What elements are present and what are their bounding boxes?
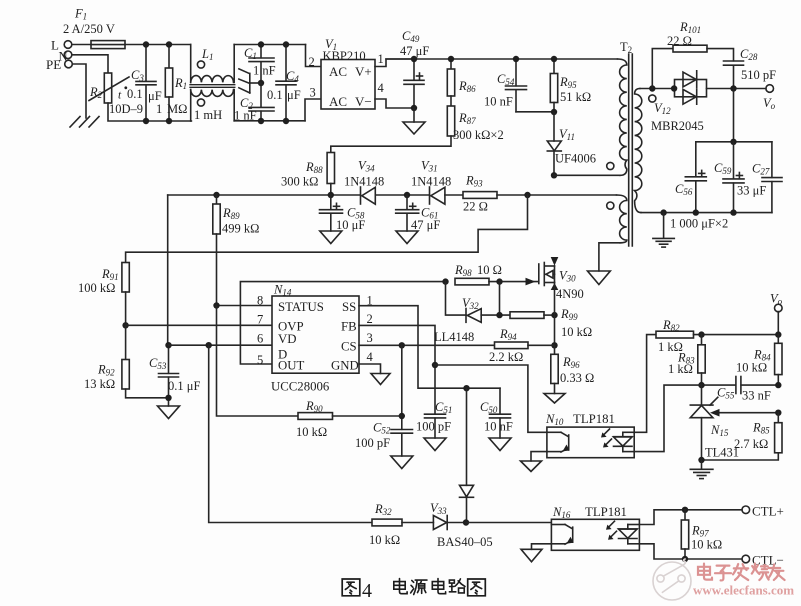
capacitor C52: [355, 421, 413, 457]
capacitor C56: [675, 142, 706, 213]
gate arrow: [526, 278, 536, 286]
svg-text:10 kΩ: 10 kΩ: [369, 533, 400, 547]
node: [524, 192, 530, 198]
ref arrow: [710, 409, 720, 417]
diode V34 1N4148: [344, 159, 384, 205]
optocoupler N10 TLP181: [545, 412, 634, 458]
node: [698, 457, 704, 463]
wire L to fuse: [72, 44, 91, 46]
optocoupler N16 TLP181: [551, 505, 639, 550]
svg-text:5: 5: [257, 353, 263, 367]
node: [551, 109, 557, 115]
svg-text:10D–9: 10D–9: [109, 102, 143, 116]
node: [165, 342, 171, 348]
svg-text:300 kΩ×2: 300 kΩ×2: [453, 128, 504, 142]
svg-text:C4: C4: [286, 69, 299, 84]
svg-text:R95: R95: [559, 75, 577, 90]
node: [166, 41, 172, 47]
svg-text:C59: C59: [714, 161, 732, 176]
svg-text:CS: CS: [341, 340, 357, 354]
svg-text:L1: L1: [201, 47, 213, 62]
terminal N: [59, 49, 72, 63]
ground: [391, 456, 413, 469]
svg-text:1 nF: 1 nF: [253, 64, 276, 78]
svg-text:GND: GND: [331, 359, 359, 373]
node: [411, 105, 417, 111]
svg-text:13 kΩ: 13 kΩ: [84, 377, 115, 391]
node: [206, 342, 212, 348]
node: [411, 56, 417, 62]
capacitor C53: [149, 345, 200, 406]
svg-text:300 kΩ: 300 kΩ: [281, 175, 318, 189]
node: [143, 118, 149, 124]
svg-text:R92: R92: [97, 363, 115, 378]
node: [463, 519, 469, 525]
earth ground: [653, 213, 674, 248]
wire gate: [489, 281, 538, 283]
wire R87 to R88: [331, 136, 451, 153]
wire V+ out: [375, 59, 414, 67]
svg-text:N14: N14: [273, 283, 292, 298]
svg-text:C50: C50: [480, 400, 498, 415]
svg-text:3: 3: [367, 331, 373, 345]
node: [258, 118, 264, 124]
capacitor C59: [714, 142, 766, 213]
resistor R90: [217, 306, 402, 440]
wire R2 bottom: [108, 103, 191, 121]
svg-text:100 pF: 100 pF: [416, 420, 451, 434]
node: [551, 342, 557, 348]
svg-text:1: 1: [378, 52, 384, 66]
ground: [521, 461, 542, 472]
wire DC+ rail: [386, 58, 618, 60]
svg-text:OUT: OUT: [278, 359, 304, 373]
capacitor C58: [320, 195, 366, 232]
watermark 电子发烧友: [698, 564, 785, 581]
node: [448, 56, 454, 62]
resistor R1: [165, 45, 187, 122]
terminal Vo: [763, 85, 776, 111]
capacitor C54: [484, 59, 554, 112]
svg-text:100 kΩ: 100 kΩ: [78, 281, 115, 295]
diode V33b: [460, 388, 474, 522]
svg-text:C27: C27: [752, 162, 770, 177]
node: [463, 385, 469, 391]
node: [698, 382, 704, 388]
wire bottom rail: [234, 120, 305, 122]
node: [442, 278, 448, 284]
node: [682, 507, 688, 513]
wire CS down: [401, 345, 403, 429]
capacitor C61: [396, 195, 441, 232]
svg-text:V−: V−: [355, 94, 372, 109]
diode V32: [446, 282, 511, 323]
svg-text:UF4006: UF4006: [555, 152, 596, 166]
wire aux to ground: [599, 243, 620, 271]
svg-text:VD: VD: [278, 332, 296, 346]
capacitor C49: [400, 29, 429, 108]
resistor R91: [78, 263, 129, 326]
svg-text:4: 4: [378, 81, 385, 95]
wire: [375, 194, 429, 196]
svg-text:MBR2045: MBR2045: [651, 119, 704, 133]
svg-text:22 Ω: 22 Ω: [667, 34, 692, 48]
svg-text:C3: C3: [131, 68, 144, 83]
svg-text:MΩ: MΩ: [167, 102, 187, 116]
ground: [521, 549, 542, 562]
svg-text:C56: C56: [675, 182, 693, 197]
wire emitter to ground: [531, 452, 547, 461]
svg-text:1N4148: 1N4148: [344, 175, 384, 189]
wire to CTL+: [639, 510, 742, 525]
svg-text:33 μF: 33 μF: [737, 184, 766, 198]
resistor R87: [447, 96, 503, 142]
svg-text:KBP210: KBP210: [323, 49, 366, 63]
svg-text:10 nF: 10 nF: [484, 420, 513, 434]
caption 图4 电源电路图: [342, 579, 485, 596]
node: [693, 209, 699, 215]
svg-text:R94: R94: [499, 327, 517, 342]
resistor R89: [213, 195, 260, 306]
wire secondary top: [640, 88, 674, 90]
svg-text:BAS40–05: BAS40–05: [437, 535, 493, 549]
svg-text:C53: C53: [149, 356, 167, 371]
svg-text:N10: N10: [545, 412, 564, 427]
earth ground: [690, 460, 713, 479]
svg-text:R86: R86: [458, 79, 476, 94]
resistor R83: [668, 335, 705, 386]
node: [213, 192, 219, 198]
svg-text:R90: R90: [305, 399, 323, 414]
wire opto to R82: [634, 335, 656, 433]
ground: [396, 231, 418, 244]
svg-text:6: 6: [257, 332, 263, 346]
node: [513, 56, 519, 62]
svg-text:www.elecfans.com: www.elecfans.com: [693, 583, 794, 598]
svg-text:V34: V34: [358, 159, 375, 174]
wire PE: [72, 64, 86, 118]
svg-text:4: 4: [367, 350, 374, 364]
svg-text:TLP181: TLP181: [585, 505, 627, 519]
node: [496, 278, 502, 284]
node: [730, 85, 736, 91]
svg-text:AC: AC: [329, 94, 347, 109]
aux winding: [607, 195, 627, 243]
svg-text:2.2 kΩ: 2.2 kΩ: [489, 350, 523, 364]
svg-text:V33: V33: [430, 501, 447, 516]
resistor R84: [736, 335, 782, 386]
capacitor C3: [127, 45, 162, 122]
svg-text:R93: R93: [465, 174, 483, 189]
wire to bridge pin2: [306, 45, 322, 67]
svg-text:100 pF: 100 pF: [355, 436, 390, 450]
svg-text:R88: R88: [305, 160, 323, 175]
node: [775, 331, 781, 337]
terminal CTL-: [742, 553, 784, 568]
ground: [544, 394, 565, 404]
dual diode V12 MBR2045: [651, 71, 707, 133]
svg-text:R96: R96: [562, 355, 580, 370]
svg-text:V31: V31: [421, 159, 438, 174]
wire cap top rail: [696, 141, 772, 143]
svg-text:CTL+: CTL+: [752, 504, 784, 519]
node: [775, 410, 781, 416]
svg-text:10 μF: 10 μF: [336, 218, 365, 232]
terminal PE: [46, 57, 72, 72]
capacitor C27: [752, 142, 782, 213]
svg-text:R99: R99: [560, 307, 578, 322]
wire output column: [733, 89, 735, 142]
chassis ground: [70, 117, 99, 128]
svg-text:10 kΩ: 10 kΩ: [691, 538, 722, 552]
node: [496, 312, 502, 318]
watermark logo: [653, 559, 691, 600]
svg-text:R89: R89: [222, 206, 240, 221]
node: [775, 382, 781, 388]
wire FB pin2: [359, 325, 435, 414]
svg-text:R87: R87: [458, 111, 476, 126]
wire to N16: [466, 522, 551, 524]
svg-text:1N4148: 1N4148: [411, 175, 451, 189]
terminal CTL+: [742, 504, 784, 519]
wire fuse to choke: [125, 44, 191, 46]
svg-text:N16: N16: [552, 505, 571, 520]
svg-text:R32: R32: [374, 502, 392, 517]
svg-text:10 nF: 10 nF: [484, 95, 513, 109]
resistor R98: [454, 263, 502, 285]
svg-text:R2: R2: [89, 85, 103, 100]
terminal Vo: [770, 292, 783, 335]
diode V11 UF4006: [547, 112, 596, 175]
wire source: [554, 283, 556, 346]
wire V- out: [375, 99, 414, 108]
svg-text:3: 3: [310, 86, 316, 100]
node: [328, 192, 334, 198]
svg-text:7: 7: [257, 313, 263, 327]
svg-text:V32: V32: [462, 296, 479, 311]
svg-text:V+: V+: [355, 64, 372, 79]
wire FB to opto: [435, 365, 547, 432]
capacitor C55: [702, 377, 779, 403]
terminal L: [51, 38, 72, 53]
ground: [320, 231, 342, 244]
wire STATUS pin8: [217, 305, 273, 307]
wire cap bottom rail: [641, 212, 772, 214]
svg-text:R101: R101: [679, 20, 701, 35]
svg-text:0.1 μF: 0.1 μF: [168, 379, 200, 393]
wire Vo rail: [694, 334, 779, 336]
resistor R95: [550, 59, 591, 112]
node: [404, 192, 410, 198]
wire OUT bracket: [240, 282, 445, 364]
resistor R97: [681, 510, 722, 559]
node: [166, 118, 172, 124]
IC U-N14 UCC28006: [257, 283, 374, 394]
svg-text:AC: AC: [329, 64, 347, 79]
wire OVP sense: [126, 195, 528, 263]
resistor R94: [489, 327, 555, 364]
svg-text:10 kΩ: 10 kΩ: [736, 361, 767, 375]
svg-text:FB: FB: [341, 320, 357, 334]
node: [258, 41, 264, 47]
svg-text:2: 2: [367, 312, 373, 326]
node: [399, 413, 405, 419]
node: [283, 118, 289, 124]
svg-text:SS: SS: [342, 300, 356, 314]
node: [660, 209, 666, 215]
svg-text:F1: F1: [74, 7, 87, 22]
resistor R32: [369, 502, 433, 547]
svg-text:TLP181: TLP181: [573, 412, 615, 426]
svg-text:2: 2: [309, 55, 315, 69]
svg-text:t: t: [118, 90, 122, 102]
svg-text:C49: C49: [402, 29, 420, 44]
svg-text:0.1: 0.1: [267, 88, 283, 102]
capacitor C4: [267, 45, 301, 122]
svg-text:STATUS: STATUS: [278, 300, 324, 314]
svg-text:N15: N15: [710, 423, 729, 438]
secondary winding: [635, 89, 656, 213]
svg-text:1 mH: 1 mH: [194, 108, 222, 122]
svg-text:1 nF: 1 nF: [234, 109, 257, 123]
wire V12 out: [707, 88, 766, 90]
primary winding: [607, 59, 627, 175]
ground: [158, 406, 180, 419]
wire GND pin4: [359, 364, 381, 374]
wire aux down-left feed: [167, 195, 169, 345]
capacitor C2: [234, 83, 274, 123]
svg-text:10 Ω: 10 Ω: [477, 263, 502, 277]
svg-text:2 A/250 V: 2 A/250 V: [63, 22, 115, 36]
resistor R99: [510, 307, 592, 339]
capacitor C28: [707, 47, 776, 89]
resistor R96: [551, 345, 594, 393]
node: [671, 85, 677, 91]
wire to bridge pin3: [305, 99, 321, 121]
capacitor C50: [480, 388, 513, 438]
svg-text:T2: T2: [620, 40, 632, 55]
shield connection: [239, 69, 261, 93]
wire emitter to ground: [532, 544, 552, 550]
wire VD pin6: [169, 344, 273, 346]
svg-text:R98: R98: [454, 263, 472, 278]
svg-text:V12: V12: [654, 101, 671, 116]
svg-text:1 kΩ: 1 kΩ: [668, 362, 693, 376]
svg-text:4N90: 4N90: [556, 287, 584, 301]
svg-text:Vo: Vo: [770, 292, 783, 307]
node: [432, 362, 438, 368]
svg-text:33 nF: 33 nF: [742, 389, 771, 403]
shunt reference N15 TL431: [690, 385, 739, 460]
capacitor C1: [244, 45, 276, 84]
wire opto cathode: [634, 385, 701, 452]
svg-text:51 kΩ: 51 kΩ: [560, 90, 591, 104]
svg-text:C51: C51: [435, 400, 452, 415]
node: [165, 395, 171, 401]
svg-text:R97: R97: [691, 524, 709, 539]
svg-text:PE: PE: [46, 57, 61, 72]
ground: [403, 108, 425, 134]
node: [283, 41, 289, 47]
wire N: [72, 55, 108, 73]
node: [143, 41, 149, 47]
wire OVP pin7: [126, 324, 272, 326]
svg-text:10 kΩ: 10 kΩ: [296, 425, 327, 439]
resistor R86: [447, 59, 476, 96]
diode V33 BAS40-05: [430, 501, 493, 549]
svg-text:22 Ω: 22 Ω: [463, 200, 488, 214]
svg-text:2.7 kΩ: 2.7 kΩ: [734, 437, 768, 451]
node: [730, 209, 736, 215]
node: [682, 556, 688, 562]
svg-text:μF: μF: [287, 88, 301, 102]
svg-text:C52: C52: [373, 421, 391, 436]
ground: [424, 438, 446, 451]
wire aux line: [168, 194, 361, 196]
resistor R93: [463, 174, 497, 214]
svg-text:R85: R85: [752, 421, 770, 436]
node: [649, 85, 655, 91]
fuse F1: [63, 7, 125, 49]
transformer T2: [620, 40, 632, 246]
bridge rectifier V1 KBP210: [309, 37, 385, 109]
node: [551, 56, 557, 62]
diode V31 1N4148: [411, 159, 451, 205]
resistor R92: [84, 325, 169, 398]
svg-text:1: 1: [156, 102, 162, 116]
svg-text:C28: C28: [740, 47, 758, 62]
common-mode choke L1: [190, 45, 235, 123]
svg-text:C54: C54: [497, 72, 515, 87]
mosfet V30 4N90: [539, 257, 584, 301]
svg-text:47 μF: 47 μF: [411, 218, 440, 232]
svg-text:8: 8: [257, 294, 263, 308]
resistor R85: [702, 413, 783, 460]
resistor R101: [652, 20, 707, 89]
node: [730, 139, 736, 145]
wire: [497, 194, 617, 196]
node: [698, 331, 704, 337]
node: [551, 172, 557, 178]
svg-text:UCC28006: UCC28006: [271, 380, 330, 394]
svg-text:R1: R1: [174, 76, 187, 91]
ground: [588, 271, 611, 285]
svg-text:μF: μF: [148, 89, 162, 103]
svg-text:V30: V30: [559, 269, 576, 284]
svg-text:510 pF: 510 pF: [741, 68, 776, 82]
capacitor C51: [416, 400, 452, 438]
svg-text:V11: V11: [559, 127, 575, 142]
svg-text:LL4148: LL4148: [434, 330, 474, 344]
svg-text:0.33 Ω: 0.33 Ω: [560, 371, 594, 385]
ground: [371, 374, 390, 385]
svg-text:1 000 μF×2: 1 000 μF×2: [670, 217, 728, 231]
node: [122, 322, 128, 328]
resistor R82: [656, 318, 694, 354]
node: [399, 342, 405, 348]
svg-text:Vo: Vo: [763, 96, 776, 111]
node: [551, 312, 557, 318]
svg-text:0.1: 0.1: [127, 87, 143, 101]
wire D descend to R32: [209, 345, 372, 522]
svg-text:C55: C55: [717, 386, 735, 401]
wire primary return: [554, 174, 620, 176]
resistor R88: [281, 153, 335, 196]
node: [213, 302, 219, 308]
svg-text:4: 4: [362, 580, 372, 602]
svg-text:C1: C1: [244, 46, 257, 61]
wire: [445, 194, 463, 196]
